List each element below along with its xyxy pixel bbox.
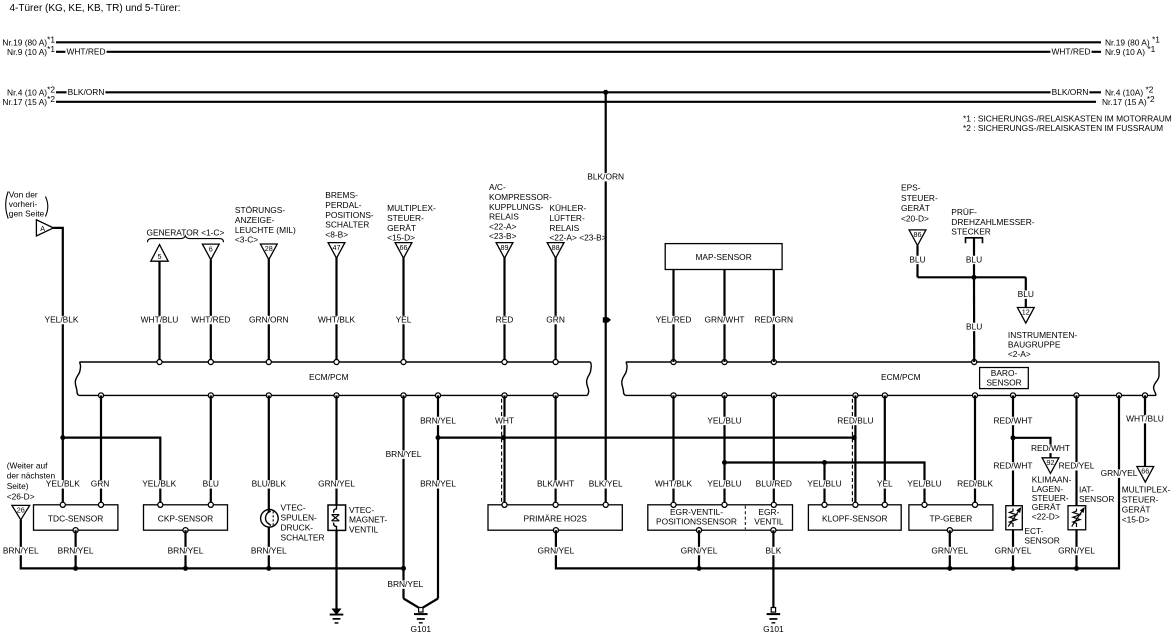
note fuse/relay box locations	[963, 114, 1172, 134]
svg-text:<26-D>: <26-D>	[7, 491, 35, 501]
brake pedal position switch label, triangle 47, wire WHT/BLK	[317, 190, 374, 362]
svg-text:BRN/YEL: BRN/YEL	[387, 579, 423, 589]
svg-text:TP-GEBER: TP-GEBER	[929, 514, 972, 524]
svg-text:<3-C>: <3-C>	[235, 235, 258, 245]
svg-text:BLU: BLU	[966, 321, 982, 331]
svg-text:BLU/RED: BLU/RED	[756, 479, 792, 489]
connector triangle 6 (generator) with wire WHT/RED	[190, 244, 231, 362]
svg-text:RED: RED	[496, 314, 514, 324]
wire WHT/BLU to multiplex control unit triangle 66	[1122, 395, 1171, 524]
svg-text:YEL: YEL	[396, 314, 412, 324]
svg-text:YEL/RED: YEL/RED	[656, 314, 692, 324]
svg-text:<20-D>: <20-D>	[901, 214, 929, 224]
test tachometer connector PRUEF-DREHZAHLMESSER-STECKER with wire BLU	[951, 207, 1035, 277]
svg-text:RED/BLK: RED/BLK	[957, 479, 993, 489]
wire BLK/ORN vertical feed to HO2S heater	[586, 90, 625, 505]
svg-text:LEUCHTE (MIL): LEUCHTE (MIL)	[235, 225, 296, 235]
svg-text:MAP-SENSOR: MAP-SENSOR	[695, 252, 751, 262]
svg-text:POSITIONS-: POSITIONS-	[325, 210, 374, 220]
svg-text:88: 88	[552, 243, 560, 252]
svg-text:BLK/YEL: BLK/YEL	[589, 479, 623, 489]
svg-text:YEL: YEL	[877, 479, 893, 489]
svg-text:INSTRUMENTEN-: INSTRUMENTEN-	[1008, 330, 1078, 340]
svg-text:<22-A>: <22-A>	[489, 221, 517, 231]
svg-text:ECT-: ECT-	[1024, 526, 1043, 536]
wire BLK EGR valve to ground G101	[763, 530, 784, 634]
ECT-SENSOR thermistor with ground GRN/YEL	[994, 506, 1060, 569]
svg-text:WHT/BLU: WHT/BLU	[141, 314, 179, 324]
junction dots right sensor-ground bus	[266, 566, 1079, 571]
svg-text:<8-B>: <8-B>	[325, 229, 348, 239]
svg-text:MULTIPLEX-: MULTIPLEX-	[387, 203, 436, 213]
PRIMAERE HO2S box	[488, 502, 622, 533]
instrument cluster triangle 12 with wire BLU	[1008, 277, 1078, 359]
MIL warning lamp label, triangle 28, wire GRN/ORN	[235, 205, 296, 362]
ECM/PCM right box	[622, 359, 1159, 398]
svg-text:PRÜF-: PRÜF-	[951, 207, 977, 217]
svg-text:vorheri-: vorheri-	[9, 199, 38, 209]
svg-text:RELAIS: RELAIS	[549, 223, 579, 233]
svg-text:BLK/ORN: BLK/ORN	[68, 87, 105, 97]
svg-text:*2 : SICHERUNGS-/RELAISKASTEN: *2 : SICHERUNGS-/RELAISKASTEN IM FUSSRAU…	[963, 123, 1163, 133]
svg-text:YEL/BLU: YEL/BLU	[707, 479, 741, 489]
svg-text:G101: G101	[411, 624, 432, 634]
svg-text:VTEC-: VTEC-	[349, 505, 374, 515]
shield ground interconnect wire	[438, 435, 857, 440]
svg-text:<23-B>: <23-B>	[489, 231, 517, 241]
svg-text:ECM/PCM: ECM/PCM	[309, 372, 349, 382]
svg-text:BREMS-: BREMS-	[325, 190, 358, 200]
BARO-SENSOR box inside ECM/PCM	[980, 368, 1029, 389]
svg-text:GRN/YEL: GRN/YEL	[1101, 468, 1138, 478]
wire fuse Nr.4 (10A) BLK/ORN	[7, 84, 1154, 97]
svg-text:GRN/YEL: GRN/YEL	[318, 479, 355, 489]
svg-text:5: 5	[158, 252, 162, 261]
wire BLU/RED to EGR valve	[755, 395, 793, 504]
svg-text:28: 28	[265, 244, 273, 253]
svg-text:<22-D>: <22-D>	[1032, 511, 1060, 521]
svg-text:PERDAL-: PERDAL-	[325, 200, 362, 210]
svg-text:DREHZAHLMESSER-: DREHZAHLMESSER-	[951, 217, 1035, 227]
svg-text:SPULEN-: SPULEN-	[281, 513, 318, 523]
TDC-SENSOR box with ground BRN/YEL	[34, 502, 118, 571]
svg-text:GRN/YEL: GRN/YEL	[931, 545, 968, 555]
svg-text:VENTIL: VENTIL	[754, 517, 784, 527]
svg-text:BRN/YEL: BRN/YEL	[420, 479, 456, 489]
svg-text:RED/BLU: RED/BLU	[837, 415, 873, 425]
svg-text:(Weiter auf: (Weiter auf	[7, 460, 48, 470]
svg-text:<15-D>: <15-D>	[1122, 515, 1150, 525]
wire RED/YEL and IAT-SENSOR thermistor with ground GRN/YEL	[1057, 395, 1114, 568]
wire RED/BLU with shield to KLOPF-SENSOR	[836, 395, 874, 504]
svg-text:BLU: BLU	[1018, 289, 1034, 299]
wire GRN ECM to TDC-SENSOR	[90, 395, 111, 504]
svg-text:YEL/BLK: YEL/BLK	[142, 479, 176, 489]
wire fuse Nr.19 (80A)	[2, 34, 1160, 47]
svg-text:RED/GRN: RED/GRN	[754, 314, 793, 324]
KLOPF-SENSOR box	[808, 502, 901, 530]
svg-text:LÜFTER-: LÜFTER-	[549, 213, 585, 223]
svg-text:47: 47	[333, 243, 341, 252]
svg-text:GRN/YEL: GRN/YEL	[995, 545, 1032, 555]
wire fuse Nr.17 (15A)	[2, 94, 1155, 107]
svg-text:SENSOR: SENSOR	[1024, 535, 1059, 545]
svg-text:WHT/RED: WHT/RED	[1051, 47, 1090, 57]
wire YEL/BLU net to EGR, KLOPF-SENSOR and TP-GEBER	[706, 395, 943, 504]
svg-text:66: 66	[1141, 467, 1149, 476]
svg-text:IAT-: IAT-	[1079, 485, 1094, 495]
radiator fan relay label, triangle 88, wire GRN	[545, 203, 607, 362]
wire YEL/BLK from connector A to TDC-SENSOR and CKP-SENSOR	[43, 228, 177, 505]
title	[10, 3, 181, 14]
wire BLU ECM to CKP-SENSOR	[202, 395, 220, 504]
svg-text:GERÄT: GERÄT	[387, 223, 416, 233]
svg-text:MULTIPLEX-: MULTIPLEX-	[1122, 485, 1171, 495]
wire GRN/YEL EGR sensor ground	[680, 530, 719, 568]
svg-text:G101: G101	[763, 624, 784, 634]
continuation triangle 26 to next page with left sensor-ground bus BRN/YEL	[2, 460, 404, 568]
svg-text:SENSOR: SENSOR	[1079, 494, 1114, 504]
svg-text:PRIMÄRE HO2S: PRIMÄRE HO2S	[524, 514, 588, 524]
wire WHT/BLK to EGR position sensor	[654, 395, 693, 504]
svg-text:A/C-: A/C-	[489, 182, 506, 192]
svg-text:WHT/BLK: WHT/BLK	[655, 479, 693, 489]
ECM/PCM left box	[75, 359, 591, 398]
EPS control unit label, triangle 86, wire BLU	[901, 182, 938, 277]
svg-text:GRN: GRN	[91, 479, 110, 489]
svg-text:RED/WHT: RED/WHT	[993, 461, 1032, 471]
svg-text:GERÄT: GERÄT	[901, 203, 930, 213]
wire BLU/BLK, VTEC oil pressure switch, wire BRN/YEL	[250, 395, 325, 568]
svg-text:YEL/BLK: YEL/BLK	[45, 314, 79, 324]
svg-text:GRN/WHT: GRN/WHT	[704, 314, 744, 324]
svg-text:GRN/ORN: GRN/ORN	[249, 314, 289, 324]
svg-text:YEL/BLU: YEL/BLU	[907, 479, 941, 489]
svg-text:BLK: BLK	[765, 545, 781, 555]
svg-text:GRN/YEL: GRN/YEL	[681, 545, 718, 555]
svg-text:BRN/YEL: BRN/YEL	[251, 545, 287, 555]
svg-text:BLU: BLU	[909, 254, 925, 264]
TP-GEBER box with wire RED/BLK and ground GRN/YEL	[909, 395, 994, 568]
CKP-SENSOR box with ground BRN/YEL	[144, 502, 228, 571]
generator label and brace	[147, 227, 225, 242]
wire BLK/WHT to primary HO2S	[536, 395, 575, 504]
svg-text:92: 92	[1047, 458, 1055, 467]
svg-text:ANZEIGE-: ANZEIGE-	[235, 215, 275, 225]
svg-text:VENTIL: VENTIL	[349, 525, 379, 535]
wire GRN/YEL HO2S ground and right sensor-ground bus	[536, 395, 1138, 568]
svg-text:6: 6	[209, 244, 213, 253]
wire YEL to KLOPF-SENSOR	[876, 395, 894, 504]
svg-text:STEUER-: STEUER-	[1122, 495, 1159, 505]
svg-text:POSITIONSSENSOR: POSITIONSSENSOR	[656, 517, 737, 527]
svg-text:KLOPF-SENSOR: KLOPF-SENSOR	[822, 514, 888, 524]
wire BRN/YEL from ECM to G101	[385, 395, 425, 608]
svg-text:BLU/BLK: BLU/BLK	[252, 479, 287, 489]
svg-text:<22-A> <23-B>: <22-A> <23-B>	[549, 233, 606, 243]
svg-text:BLU: BLU	[966, 254, 982, 264]
svg-text:RED/YEL: RED/YEL	[1059, 461, 1095, 471]
svg-text:STÖRUNGS-: STÖRUNGS-	[235, 205, 285, 215]
svg-text:EGR-: EGR-	[758, 507, 779, 517]
svg-text:KUPPLUNGS-: KUPPLUNGS-	[489, 202, 544, 212]
svg-text:12: 12	[1022, 308, 1030, 317]
svg-text:GRN: GRN	[546, 314, 565, 324]
svg-text:WHT/BLU: WHT/BLU	[1126, 414, 1164, 424]
connector triangle 5 (generator) with wire WHT/BLU	[140, 245, 180, 362]
svg-text:EGR-VENTIL-: EGR-VENTIL-	[670, 507, 723, 517]
svg-text:BLK/WHT: BLK/WHT	[537, 479, 574, 489]
svg-text:BRN/YEL: BRN/YEL	[58, 545, 94, 555]
svg-text:RED/WHT: RED/WHT	[993, 415, 1032, 425]
A/C compressor clutch relay label, triangle 89, wire RED	[489, 182, 552, 362]
svg-text:ECM/PCM: ECM/PCM	[881, 372, 921, 382]
svg-text:RELAIS: RELAIS	[489, 212, 519, 222]
svg-text:BLK/ORN: BLK/ORN	[587, 172, 624, 182]
wire WHT with shield to primary HO2S	[494, 395, 515, 504]
svg-text:26: 26	[17, 506, 25, 515]
svg-text:der nächsten: der nächsten	[7, 471, 56, 481]
svg-text:66: 66	[400, 243, 408, 252]
svg-text:KÜHLER-: KÜHLER-	[549, 203, 586, 213]
wire BRN/YEL shield drain from ECM to G101, ground G101	[411, 395, 457, 634]
svg-text:DRUCK-: DRUCK-	[281, 522, 314, 532]
svg-text:EPS-: EPS-	[901, 182, 921, 192]
svg-text:YEL/BLU: YEL/BLU	[707, 415, 741, 425]
svg-text:STECKER: STECKER	[951, 227, 991, 237]
svg-text:A: A	[40, 224, 45, 233]
svg-text:BRN/YEL: BRN/YEL	[420, 415, 456, 425]
svg-text:MAGNET-: MAGNET-	[349, 515, 387, 525]
multiplex control unit label, triangle 66, wire YEL	[387, 203, 436, 362]
svg-text:BLK/ORN: BLK/ORN	[1052, 87, 1089, 97]
svg-text:WHT/RED: WHT/RED	[191, 314, 230, 324]
svg-text:STEUER-: STEUER-	[387, 213, 424, 223]
wire GRN/YEL, VTEC solenoid valve, chassis ground	[317, 395, 387, 623]
svg-text:GRN/YEL: GRN/YEL	[538, 545, 575, 555]
svg-text:WHT/RED: WHT/RED	[66, 47, 105, 57]
svg-text:89: 89	[501, 243, 509, 252]
svg-text:Von der: Von der	[9, 190, 38, 200]
svg-text:GRN/YEL: GRN/YEL	[1058, 545, 1095, 555]
wire RED/WHT net with A/C control unit triangle 92	[992, 395, 1071, 521]
svg-text:SCHALTER: SCHALTER	[325, 220, 369, 230]
wire fuse Nr.9 (10A) WHT/RED	[7, 44, 1156, 57]
EGR valve position sensor / EGR valve box	[648, 502, 793, 533]
svg-text:CKP-SENSOR: CKP-SENSOR	[158, 514, 213, 524]
svg-text:TDC-SENSOR: TDC-SENSOR	[48, 514, 103, 524]
svg-text:4-Türer (KG, KE, KB, TR) und 5: 4-Türer (KG, KE, KB, TR) und 5-Türer:	[10, 3, 181, 14]
svg-text:BRN/YEL: BRN/YEL	[168, 545, 204, 555]
svg-text:SCHALTER: SCHALTER	[281, 532, 325, 542]
svg-text:BRN/YEL: BRN/YEL	[386, 449, 422, 459]
svg-text:BAUGRUPPE: BAUGRUPPE	[1008, 340, 1061, 350]
svg-text:<2-A>: <2-A>	[1008, 349, 1031, 359]
svg-text:gen Seite: gen Seite	[9, 209, 45, 219]
svg-text:VTEC-: VTEC-	[281, 503, 306, 513]
svg-text:<15-D>: <15-D>	[387, 233, 415, 243]
svg-text:BARO-: BARO-	[991, 368, 1018, 378]
svg-text:SENSOR: SENSOR	[986, 377, 1021, 387]
svg-text:RED/WHT: RED/WHT	[1031, 443, 1070, 453]
svg-text:Seite): Seite)	[7, 481, 29, 491]
svg-text:GERÄT: GERÄT	[1122, 505, 1151, 515]
MAP-SENSOR box with wires YEL/RED GRN/WHT RED/GRN	[655, 244, 795, 362]
svg-text:WHT/BLK: WHT/BLK	[318, 314, 356, 324]
connector A from previous page	[6, 190, 54, 236]
svg-text:YEL/BLU: YEL/BLU	[807, 479, 841, 489]
svg-text:BLU: BLU	[203, 479, 219, 489]
svg-text:86: 86	[914, 230, 922, 239]
svg-text:STEUER-: STEUER-	[901, 193, 938, 203]
svg-text:WHT: WHT	[495, 415, 514, 425]
svg-text:KOMPRESSOR-: KOMPRESSOR-	[489, 192, 552, 202]
svg-text:*1 : SICHERUNGS-/RELAISKASTEN: *1 : SICHERUNGS-/RELAISKASTEN IM MOTORRA…	[963, 114, 1172, 124]
BLU net junction and wire to ECM pin	[918, 275, 1026, 362]
svg-text:BRN/YEL: BRN/YEL	[3, 545, 39, 555]
